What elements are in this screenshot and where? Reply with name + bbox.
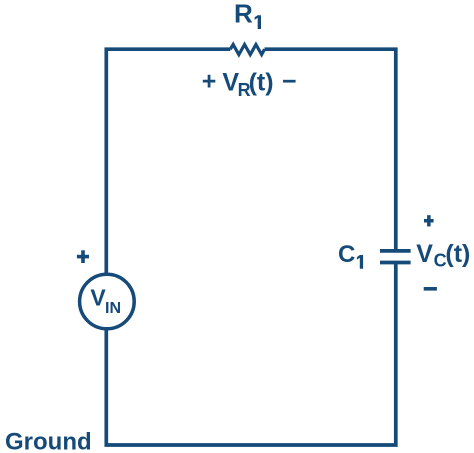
voltage label VC(t) (across capacitor) xyxy=(416,240,470,270)
svg-text:+: + xyxy=(202,68,217,96)
svg-text:−: − xyxy=(282,68,297,96)
label C1 xyxy=(338,241,363,269)
svg-text:Ground: Ground xyxy=(5,429,92,453)
wire: top run from resistor left to top-left corner, down left side to source top xyxy=(106,49,230,273)
svg-text:(t): (t) xyxy=(445,240,470,268)
ground label (net name) xyxy=(5,429,92,453)
voltage source VIN (circle symbol) xyxy=(80,274,135,329)
label R1 xyxy=(234,0,261,29)
capacitor C1 (two plates) xyxy=(380,251,411,263)
wire: from source bottom, down left side, bottom run, up right side to capacitor bottom plate xyxy=(106,263,396,446)
voltage label + VR(t) - (across resistor) xyxy=(202,68,297,101)
svg-text:C: C xyxy=(338,241,355,268)
wire: from resistor right to top-right corner, down right side to capacitor top plate xyxy=(265,49,396,250)
polarity + of source VIN xyxy=(77,250,89,263)
svg-text:V: V xyxy=(416,240,433,268)
svg-text:R: R xyxy=(234,0,253,28)
label VIN inside source circle xyxy=(90,285,121,318)
polarity + of capacitor voltage VC xyxy=(424,215,434,226)
polarity - of capacitor voltage VC xyxy=(424,287,437,291)
svg-text:IN: IN xyxy=(105,300,121,317)
svg-text:(t): (t) xyxy=(249,69,274,97)
svg-text:V: V xyxy=(90,285,106,311)
resistor R1 (zigzag body) xyxy=(230,45,264,55)
